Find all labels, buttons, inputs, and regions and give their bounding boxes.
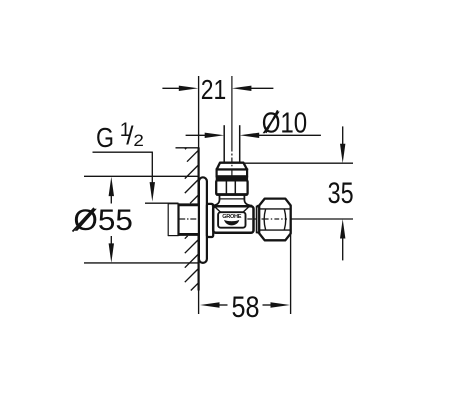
G1/2 leader vertical: [151, 152, 153, 183]
top nut dark ring: [216, 176, 248, 180]
wall hatching: [185, 148, 199, 291]
svg-text:2: 2: [133, 132, 144, 150]
side nut barrel arcs: [264, 209, 265, 230]
G1/2 thread top edge extension: [145, 202, 179, 204]
side outlet compression nut (octagon): [259, 199, 291, 241]
GROHE label plate: [218, 212, 245, 228]
top nut upper band: [217, 170, 248, 177]
side nut facet lines: [259, 208, 290, 210]
G1/2 threaded inlet thin tip: [168, 203, 178, 236]
arrow dim35 top: [340, 144, 345, 164]
top hex nut thick bottom edge: [216, 193, 247, 196]
arrow dim58 left: [200, 302, 220, 307]
dim 35 line lower segment: [342, 238, 344, 261]
neck below top nut: [212, 196, 252, 206]
arrow Ø10 right: [240, 133, 260, 138]
GROHE label plate diagonals: [214, 206, 220, 212]
svg-text:58: 58: [232, 291, 260, 324]
Ø10 slash overshoot: [266, 110, 278, 133]
arrow dim58 right: [271, 302, 291, 307]
Ø55 slash overshoot: [73, 208, 95, 232]
svg-text:21: 21: [201, 74, 227, 105]
top hex nut: [216, 180, 247, 194]
valve body: [213, 206, 253, 232]
dim 35 top extension line: [243, 162, 353, 164]
dim 58 extension left (below wall): [198, 291, 200, 315]
arrow dim21 right: [232, 86, 252, 91]
arrow dim35 bottom: [340, 219, 345, 239]
dim 21 line right part: [251, 87, 274, 89]
arrow dim Ø55 top: [109, 177, 114, 197]
dim 58 line right segment: [263, 304, 272, 306]
arrow dim21 left: [179, 86, 199, 91]
horizontal centerline (inlet/outlet axis): [180, 218, 288, 220]
wall surface line: [198, 148, 200, 291]
arrow dim Ø55 bottom: [109, 243, 114, 263]
dim Ø55 line lower segment: [110, 236, 112, 244]
arrow Ø10 left: [205, 133, 225, 138]
G1/2 threaded inlet thick section: [179, 203, 199, 236]
top compression nut chamfer trapezoid: [217, 163, 248, 170]
svg-text:GROHE: GROHE: [222, 214, 242, 220]
dim 21 extension line (wall surface, above wall): [198, 76, 200, 148]
outlet stub: [257, 207, 260, 233]
vertical centerline (pipe axis): [231, 76, 233, 177]
dim 58 line left segment: [219, 304, 228, 306]
dim 35 bottom extension line (axis extended): [291, 218, 353, 220]
dim 58 extension right: [290, 219, 292, 314]
svg-text:Ø10: Ø10: [262, 108, 308, 140]
dim Ø10 line: [186, 134, 206, 136]
dim Ø55 line upper segment: [110, 196, 112, 204]
flange escutcheon Ø55: [199, 177, 207, 263]
wall top edge: [176, 147, 200, 149]
svg-text:35: 35: [328, 177, 354, 210]
dim Ø55 bottom extension line: [84, 262, 199, 264]
riser pipe Ø10: [224, 125, 240, 162]
side outlet neck: [257, 205, 260, 207]
dim 21 line left part: [162, 87, 180, 89]
GROHE logo smile: [224, 220, 239, 226]
arrow G1/2 leader: [150, 182, 155, 202]
svg-text:G: G: [96, 122, 114, 153]
body collar at flange: [207, 204, 213, 237]
dim 35 line upper segment: [342, 126, 344, 144]
dim Ø55 top extension line: [84, 175, 199, 177]
neck washer line: [220, 198, 244, 200]
G1/2 leader underline: [93, 151, 153, 153]
